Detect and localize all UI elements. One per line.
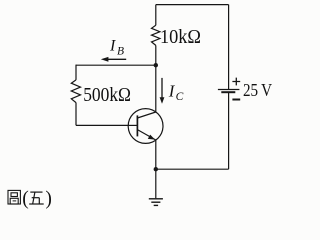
wire collector node to transistor [155,65,157,112]
wire right vertical upper (to battery +) [228,5,230,89]
transistor Q1 base bar [136,115,138,136]
svg-text:500kΩ: 500kΩ [83,84,131,106]
resistor 10k ohm zigzag [152,25,160,45]
svg-text:25 V: 25 V [243,80,272,100]
wire ground stem [155,169,157,198]
battery V1 25V negative plate [221,91,235,93]
figure caption: character five [29,192,44,204]
wire right vertical lower (battery - to bottom) [228,92,230,169]
svg-text:C: C [176,91,184,103]
svg-text:(: ( [22,189,29,210]
node junction collector [154,63,158,67]
wire base lead [76,124,128,126]
wire bottom horizontal (emitter node to right branch) [156,168,229,170]
current arrow I_C [160,78,165,104]
resistor 500k ohm zigzag [71,80,80,103]
transistor Q1 circle [128,109,163,144]
wire top horizontal [156,4,229,6]
transistor Q1 base lead inside circle [128,124,137,126]
current arrow I_B [101,57,126,62]
wire collector branch top lead [155,5,157,26]
svg-text:I: I [109,37,116,54]
wire left horizontal (node to 500k top) [76,64,156,66]
battery minus sign [232,99,240,101]
transistor Q1 collector diagonal [137,112,155,118]
figure caption: character tu (figure) [8,190,20,204]
ground symbol [149,199,163,206]
svg-text:10kΩ: 10kΩ [160,26,201,48]
battery plus sign [232,78,240,86]
svg-text:I: I [168,81,176,100]
svg-text:): ) [45,189,52,210]
wire left vertical upper lead [75,65,77,80]
node junction emitter-ground [154,167,158,171]
battery V1 25V positive plate [218,89,240,91]
wire emitter to bottom node [155,140,157,169]
wire resistor to collector node [155,45,157,65]
svg-text:B: B [117,45,124,57]
transistor Q1 emitter diagonal with arrow [137,130,155,140]
wire left vertical lower lead [75,103,77,126]
